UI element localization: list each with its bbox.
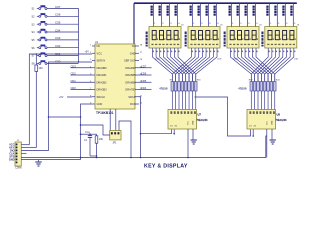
wire seg drop [257,91,259,110]
label pin number [256,51,257,53]
wire seg fan [271,48,290,82]
svg-text:DRA6B6: DRA6B6 [125,80,136,84]
svg-text:JP1: JP1 [112,142,117,145]
wire seg fan [176,48,195,82]
svg-text:C04: C04 [55,28,61,32]
pin U1 right 26 SER OUT [124,59,143,63]
wire seg drop [178,91,180,110]
wire seg fan [192,48,213,82]
wire seg fan [160,48,179,82]
svg-text:SRCLK: SRCLK [97,95,106,99]
wire seg fan [156,48,176,82]
wire seg drop [185,91,187,110]
svg-text:GND: GND [193,120,195,125]
svg-text:DRA1B1: DRA1B1 [97,73,108,77]
resistor network RN1 47ohm x8 [159,80,201,92]
resistor R1 10K [35,54,43,148]
pin U1 left 9 GND [90,102,102,106]
svg-text:SER OUT: SER OUT [124,59,136,63]
switch S1 key C07 [32,5,79,11]
node CD2 [71,72,93,76]
svg-text:SRCK: SRCK [128,95,135,99]
svg-text:CD6: CD6 [141,72,147,76]
wire digit net DIG9 [237,3,243,26]
wire digit net DIG7 [214,3,220,26]
svg-text:C02: C02 [55,44,61,48]
wire SRCLK +5V [59,96,92,99]
wire enable to U7 [140,130,175,135]
svg-text:CD1: CD1 [71,79,77,83]
wire seg fan [179,48,199,82]
wire seg drop [175,91,177,110]
label pin number [253,51,254,53]
wire seg fan [252,48,271,82]
wire seg fan [174,48,192,82]
pin J1 3 DIO [10,150,15,153]
wire seg drop [250,91,252,110]
capacitor C1 0.1u [84,131,92,156]
wire digit net DIG6 [206,3,212,26]
switch S4 key C04 [32,28,79,34]
pin U1 left 2 VCC [90,51,102,55]
pin U1 left 6 DRA2B2 [90,80,107,84]
label U7 [197,113,209,122]
wire seg fan [171,48,189,82]
wire digit net DIG5 [198,3,204,26]
svg-text:47ΩX8: 47ΩX8 [159,87,168,91]
node CD7 [139,64,152,68]
pin U1 left 1 NC [90,44,100,48]
svg-text:VCC: VCC [188,120,190,125]
node CD6 [139,72,152,76]
node CD3 [71,64,93,68]
wire digit net DIG2 [167,3,173,26]
pin U1 left 8 SRCLK [90,95,105,99]
wire seg fan [265,48,283,82]
label pin number [156,51,157,53]
pin U1 right 25 DRA4B4 [125,66,143,70]
svg-text:GND: GND [130,51,136,55]
svg-text:+5V: +5V [59,96,64,99]
wire seg fan [258,48,276,82]
wire bus drop [133,3,135,78]
wire J1 pin3 [21,150,48,152]
switch S8 key C00 [32,60,79,66]
svg-text:VCC: VCC [267,120,269,125]
display U5 4digit-7seg [265,25,299,49]
svg-text:18: 18 [220,25,222,27]
pin U1 right 22 DRA7B7 [125,88,143,92]
wire seg fan [256,48,275,82]
wire gnd rail [80,104,92,160]
svg-text:+5V: +5V [85,51,90,54]
wire J1 pin5 serial bottom [21,136,266,158]
svg-text:74HC244: 74HC244 [197,118,209,122]
label module part number [224,32,226,47]
svg-text:47ΩX8: 47ΩX8 [238,87,247,91]
svg-text:DRA3B3: DRA3B3 [97,88,108,92]
label pin number [234,51,235,53]
svg-text:NC: NC [97,44,101,48]
display U4 4digit-7seg [227,25,261,49]
wire digit net DIG3 [175,3,181,26]
pin U1 bottom 15 [115,109,117,131]
svg-text:18: 18 [297,25,299,27]
svg-text:U7: U7 [198,113,202,117]
svg-text:1G: 1G [170,126,173,128]
wire vcc stub [81,133,97,135]
wire seg fan [268,48,286,82]
ground connector [35,162,41,166]
svg-text:18: 18 [259,25,261,27]
wire seg drop [191,91,193,110]
label module part number [146,32,148,47]
wire seg fan [182,48,202,82]
svg-text:1G: 1G [249,126,252,128]
pin J1 4 CLK [9,152,14,155]
switch S6 key C02 [32,44,79,50]
svg-text:DRA7B7: DRA7B7 [125,88,136,92]
wire seg fan [172,48,191,82]
wire seg fan [261,48,279,82]
IC U8 74HC244 [247,110,276,130]
svg-text:CD2: CD2 [71,72,77,76]
wire seg fan [186,48,206,82]
label pin number [164,51,165,53]
label pin number [160,51,161,53]
svg-text:GND: GND [9,158,15,161]
node CD1 [71,79,93,83]
svg-text:GND: GND [97,102,103,106]
svg-text:CD3: CD3 [71,64,77,68]
wire seg drop [267,91,269,110]
wire J1 pin4 [21,153,26,155]
wire seg drop [195,91,197,110]
wire enable to U8 [195,97,255,137]
svg-text:DRA0B0: DRA0B0 [97,66,108,70]
wire digit net DIG11 [253,3,259,26]
wire key common line [78,9,80,63]
label pin number [242,51,243,53]
pin U1 right 21 SRCK [128,95,143,99]
svg-text:10K: 10K [99,138,104,141]
label pin number [167,51,168,53]
wire U8 to bottom [266,129,268,158]
op IC U1 TP16KB101 [95,41,135,115]
pin U1 right 24 DRA5B5 [125,73,143,77]
wire seg drop [264,91,266,110]
switch S7 key C01 [32,52,79,58]
node CD0 [71,86,93,90]
wire seg fan [230,48,251,82]
svg-text:DRA5B5: DRA5B5 [125,73,136,77]
wire seg fan [189,48,210,82]
pin U1 right 20 RCK [130,102,143,106]
wire seg drop [181,91,183,110]
node CD5 [139,79,152,83]
svg-text:C06: C06 [55,13,61,17]
svg-text:2G: 2G [254,126,257,128]
wire U7 to bottom [187,129,189,158]
wire seg fan [249,48,268,82]
wire seg fan [152,48,172,82]
pin U1 right 27 GND [130,51,143,55]
svg-text:C05: C05 [55,21,61,25]
ground [270,129,276,144]
switch S2 key C06 [32,13,79,19]
display U2 4digit-7seg [149,25,183,49]
wire seg fan [245,48,265,82]
wire digit net DIG12 [266,3,272,26]
wire digit net DIG1 [159,3,165,26]
label U8 [276,113,288,122]
resistor R2 10K [90,134,103,158]
label pin number [231,51,232,53]
wire digit net DIG4 [190,3,196,26]
pin J1 5 STB [9,155,14,158]
wire seg fan [234,48,255,82]
pin U1 left 7 DRA3B3 [90,88,107,92]
wire J1 pin1 [21,144,29,146]
ground [191,129,197,144]
pin U1 left 3 SER IN [90,59,105,63]
svg-text:CD5: CD5 [141,79,147,83]
svg-text:CD4: CD4 [141,86,147,90]
wire digit net DIG10 [245,3,251,26]
wire branch [49,116,82,118]
label pin number [178,51,179,53]
wire VCC net [29,53,92,145]
wire seg drop [254,91,256,110]
resistor network RN2 47ohm x8 [238,80,280,92]
svg-text:DRA2B2: DRA2B2 [97,80,108,84]
switch S5 key C03 [32,36,79,42]
wire SERIN net [48,62,92,151]
wire seg fan [251,48,268,82]
wire seg drop [188,91,190,110]
svg-text:SER IN: SER IN [97,59,106,63]
svg-text:10K: 10K [39,67,44,70]
svg-text:74HC244: 74HC244 [276,118,288,122]
wire seg fan [241,48,261,82]
label pin number [171,51,172,53]
svg-text:C07: C07 [55,5,61,9]
wire seg fan [275,48,294,82]
svg-text:DRA4B4: DRA4B4 [125,66,136,70]
svg-text:KEY & DISPLAY: KEY & DISPLAY [144,163,188,169]
svg-text:18: 18 [181,25,183,27]
bus TOPBUS [134,2,297,4]
svg-text:VCC: VCC [97,51,103,55]
wire seg fan [255,48,272,82]
svg-text:C03: C03 [55,36,61,40]
wire seg drop [270,91,272,110]
wire JP1 left [80,124,110,135]
wire seg drop [260,91,262,110]
label pin number [245,51,246,53]
pin U1 left 4 DRA0B0 [90,66,107,70]
wire seg fan [163,48,182,82]
wire digit net DIG15 [290,3,296,26]
wire digit net DIG0 [151,3,157,26]
svg-text:CD7: CD7 [141,64,147,68]
pin J1 6 GND [9,158,15,161]
svg-text:2G: 2G [175,126,178,128]
svg-text:NC: NC [132,44,136,48]
svg-text:U8: U8 [277,113,281,117]
connector JP1 [110,131,121,145]
wire seg drop [274,91,276,110]
svg-text:CON6: CON6 [15,168,22,169]
svg-text:GND: GND [272,120,274,125]
label module part number [185,32,187,47]
wire seg drop [171,91,173,110]
node CD4 [139,86,152,90]
pin U1 right 28 NC [132,44,143,48]
wire digit net DIG8 [229,3,235,26]
wire seg fan [238,48,258,82]
wire seg fan [196,48,217,82]
pin J1 1 VCC [9,144,14,147]
wire JP1 right [119,121,132,158]
label pin number [175,51,176,53]
svg-text:CD0: CD0 [71,86,77,90]
switch S3 key C05 [32,21,79,27]
label pin number [249,51,250,53]
pin U1 left 5 DRA1B1 [90,73,107,77]
wire J1 pin6 gnd [21,160,80,162]
wire seg fan [167,48,186,82]
label module part number [261,32,263,47]
wire digit net DIG13 [274,3,280,26]
connector J1 CON6 [15,140,22,170]
label pin number [153,51,154,53]
pin J1 2 KEY [9,147,14,150]
pin U1 right 23 DRA6B6 [125,80,143,84]
pin U1 bottom 14 [109,109,111,131]
wire J1 pin2 [21,147,36,149]
IC U7 74HC244 [168,110,197,130]
display U3 4digit-7seg [188,25,222,49]
wire seg fan [178,48,196,82]
wire digit net DIG14 [282,3,288,26]
svg-text:RCK: RCK [130,102,136,106]
wire RCK down [139,97,141,159]
label pin number [238,51,239,53]
svg-text:TP16KB101: TP16KB101 [96,111,114,115]
